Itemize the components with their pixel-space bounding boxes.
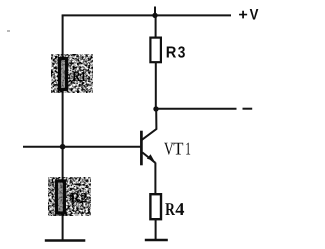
wire : R3 bottom lead down to collector node (155, 62, 157, 109)
emitter lead (142, 152, 155, 162)
wire : R3 top lead (155, 15, 157, 38)
resistor R1 body (59, 59, 66, 90)
resistor R3 (150, 38, 161, 63)
svg-text:3: 3 (178, 45, 186, 62)
stipple overlay of R1 highlight block (51, 54, 93, 93)
wire : output wire right (156, 108, 237, 110)
svg-text:4: 4 (175, 199, 184, 219)
transistor VT1 (141, 109, 156, 195)
stipple overlay of R2 highlight block (48, 177, 91, 216)
resistor R2 body (56, 181, 64, 213)
ground : right ground bar (145, 239, 168, 242)
highlighted resistor R1 (stippled selection block) (51, 54, 93, 93)
wire : stub above top junction (154, 7, 156, 16)
wire : left vertical branch (62, 15, 64, 240)
node : collector junction dot (153, 106, 158, 111)
svg-text:R: R (165, 199, 176, 219)
svg-text:T: T (173, 139, 183, 159)
highlighted resistor R2 (stippled selection block) (48, 177, 91, 216)
base bar (140, 131, 143, 166)
svg-text:V: V (250, 7, 260, 24)
svg-text:+: + (238, 7, 248, 24)
ground : left ground bar (45, 239, 86, 242)
resistor R4 (150, 194, 161, 219)
wire : R4 bottom stub (155, 219, 157, 240)
svg-text:R: R (166, 45, 177, 62)
node : base junction dot on left branch (60, 144, 66, 150)
scan speck top-left (7, 30, 10, 32)
collector lead (142, 109, 157, 140)
emitter arrowhead (147, 154, 154, 161)
emitter vertical to R4 (154, 163, 156, 195)
node : top junction dot (152, 13, 157, 18)
wire : top rail from left branch to +V (62, 14, 231, 16)
wire : base wire (23, 146, 141, 148)
svg-text:1: 1 (185, 139, 191, 159)
